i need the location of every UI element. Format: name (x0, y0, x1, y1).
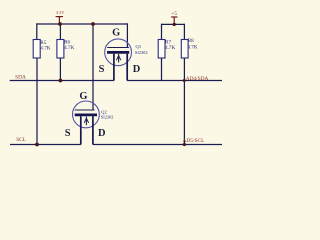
wire AD4/SDA rail (127, 80, 222, 82)
svg-text:Q3: Q3 (136, 44, 142, 49)
Q2 channel bar (75, 114, 97, 117)
Q2 substrate arrow stem (85, 117, 87, 126)
junction dot AD4/SDA rail / R8 leg crossing (183, 79, 186, 82)
wire R5 top leg (36, 23, 38, 39)
svg-text:SI2302: SI2302 (101, 114, 114, 119)
wire R5 bottom leg down to SCL rail (36, 58, 38, 145)
svg-text:SCL: SCL (16, 137, 26, 143)
junction dot SCL rail / R5 (35, 143, 39, 147)
svg-text:AD5/SCL: AD5/SCL (183, 138, 205, 144)
svg-text:S: S (65, 128, 71, 139)
wire R6 top leg (59, 24, 61, 40)
wire Q3 gate vertical from 3.3V rail (126, 23, 128, 47)
svg-text:4.7K: 4.7K (64, 45, 74, 51)
wire +5 rail (162, 23, 185, 25)
svg-text:G: G (112, 28, 120, 39)
Q2 drain leg to AD5/SCL rail (92, 116, 94, 144)
Q3 source leg to SDA rail (113, 54, 115, 81)
wire R6 bottom leg to SDA rail (59, 58, 61, 81)
junction dot 3.3V rail / R6 / power stub (58, 22, 62, 26)
transistor Q2 Si2302 N-MOSFET (65, 91, 114, 144)
wire R7 bottom leg to AD4/SDA rail (161, 58, 163, 81)
wire AD5/SCL rail (93, 144, 222, 146)
resistor R6 body (57, 40, 64, 59)
Q3 body circle (105, 39, 132, 66)
Q2 substrate arrow head (84, 118, 88, 123)
svg-text:4.7K: 4.7K (40, 46, 50, 52)
Q2 source leg to SCL rail (80, 116, 82, 144)
svg-text:4.7K: 4.7K (187, 44, 197, 50)
svg-text:AD4/SDA: AD4/SDA (186, 76, 209, 82)
wire SDA rail (10, 80, 114, 82)
svg-text:4.7K: 4.7K (165, 45, 175, 51)
Q3 drain leg to AD4/SDA rail (126, 54, 128, 81)
svg-text:D: D (133, 64, 141, 75)
junction dot SDA rail / R6 (59, 79, 63, 83)
Q2 gate plate line (75, 109, 95, 111)
resistor R5 body (33, 40, 40, 59)
svg-text:SDA: SDA (15, 75, 26, 81)
svg-text:S: S (99, 64, 105, 75)
Q2 body circle (73, 101, 100, 128)
wire 3.3V top rail (37, 23, 128, 25)
power symbol +5 bar (171, 17, 177, 24)
svg-text:3.3V: 3.3V (56, 10, 65, 15)
resistor R8 body (181, 40, 188, 59)
Q3 substrate arrow stem (118, 54, 120, 63)
svg-text:R8: R8 (188, 38, 194, 44)
transistor Q3 Si2302 N-MOSFET (99, 28, 148, 81)
power symbol 3.3V bar (56, 17, 63, 24)
wire R8 top leg (183, 24, 185, 40)
wire R7 top leg (161, 24, 163, 40)
wire SCL rail (10, 144, 81, 146)
wire Q2 gate vertical from 3.3V rail (92, 24, 94, 110)
svg-text:+5: +5 (171, 11, 177, 17)
junction dot AD5/SCL rail / R8 (183, 143, 186, 146)
svg-text:SI2302: SI2302 (135, 50, 148, 55)
Q3 channel bar (107, 51, 129, 54)
wire R8 bottom leg down to AD5/SCL rail (183, 58, 185, 145)
svg-text:G: G (79, 91, 87, 102)
Q3 gate plate line (107, 47, 129, 49)
junction dot +5 rail / power stub (173, 23, 176, 26)
Q3 substrate arrow head (116, 56, 120, 61)
resistor R7 body (158, 40, 165, 59)
svg-text:D: D (98, 128, 106, 139)
junction dot 3.3V rail / Q2 gate wire (91, 22, 95, 26)
